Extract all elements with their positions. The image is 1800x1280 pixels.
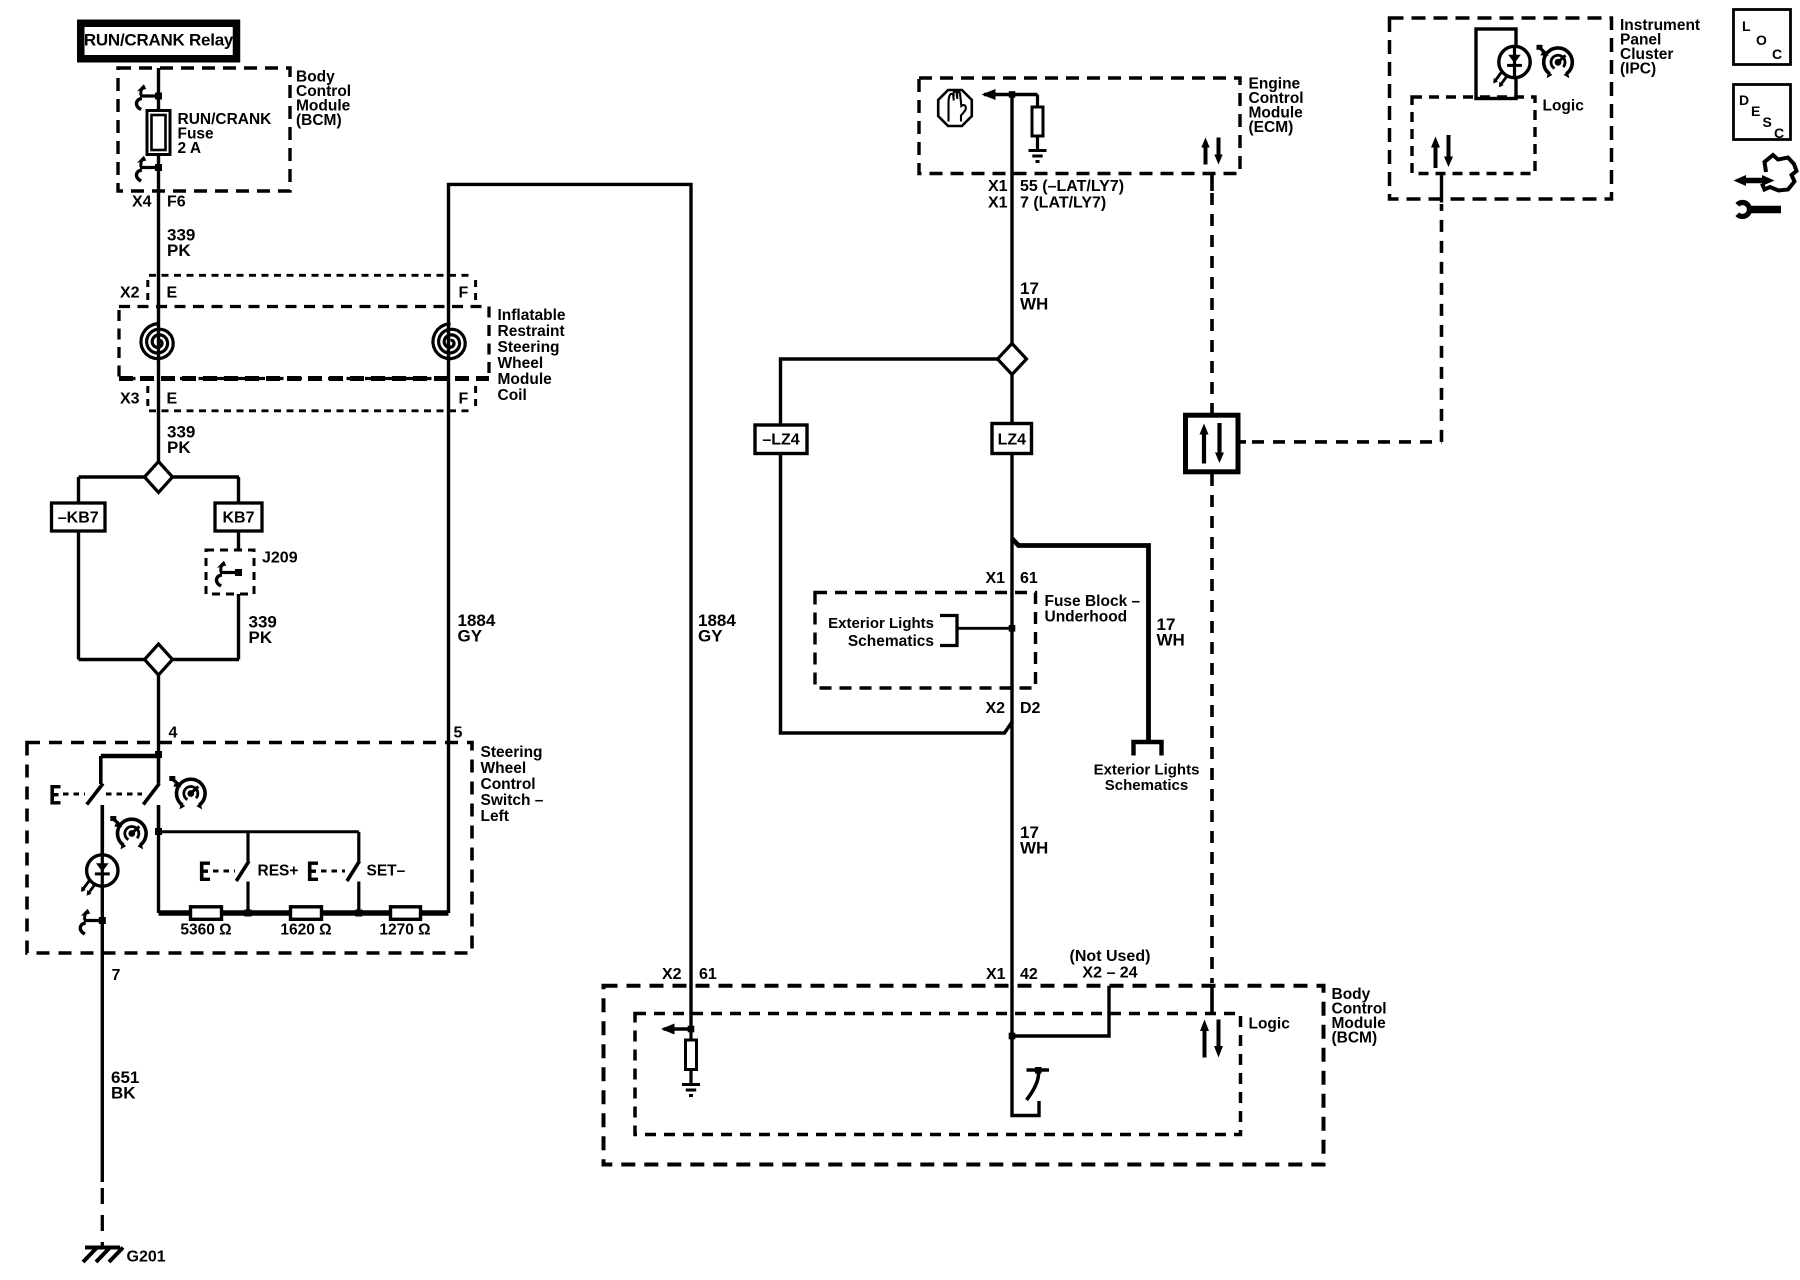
actuator dashed link (on/off) [63,793,142,796]
wire: switch2 to rail [157,832,160,913]
svg-text:J209: J209 [262,550,298,567]
node: X1-42 junction [1009,1033,1016,1040]
wire: left branch to -KB7 [77,477,80,503]
wire: comm dashed to IPC corner [1252,204,1442,442]
option box -LZ4 [755,425,807,454]
wire: pin5 drop inside box [447,743,450,914]
wire: ladder top rail [159,830,359,833]
bracket: exterior lights tap [940,616,957,646]
svg-text:Logic: Logic [1543,98,1585,115]
svg-text:–KB7: –KB7 [58,510,99,527]
svg-text:Module: Module [498,371,553,388]
logic box (IPC) [1412,97,1535,174]
wire: fuse block right branch 17 WH [1012,539,1149,742]
wire: dashed to ground [101,1188,104,1247]
svg-text:X3: X3 [120,391,140,408]
icon: serial data arrows (BCM logic) [1200,1020,1223,1058]
actuator E (RES+) [200,862,210,882]
svg-text:F: F [459,285,469,302]
svg-text:Restraint: Restraint [498,323,565,340]
resistor: ECM pull-up [1036,95,1039,108]
wire: LZ4 trunk down to BCM [1010,375,1013,1037]
wire: tap to trunk [957,627,1012,630]
svg-text:SET–: SET– [367,863,406,880]
wire: comm dashed down to BCM logic [1210,474,1214,983]
module box: Steering Wheel Control Switch - Left [27,743,544,954]
svg-text:E: E [167,391,178,408]
wire: splice S3 to -LZ4 branch [781,359,998,425]
svg-text:X2: X2 [662,966,682,983]
svg-text:O: O [1756,32,1767,48]
svg-text:Switch –: Switch – [481,792,544,809]
wire: splice to switch pin 4 [157,675,160,755]
svg-text:Exterior Lights: Exterior Lights [828,615,934,632]
svg-text:X1: X1 [988,178,1008,195]
svg-text:X4: X4 [132,194,152,211]
wire: pin7 leg 651 BK [101,886,104,1182]
module box: Instrument Panel Cluster (IPC) [1390,17,1701,199]
svg-text:1620 Ω: 1620 Ω [280,922,331,939]
svg-text:(BCM): (BCM) [1332,1030,1378,1047]
wire: ladder bottom rail [159,910,449,916]
svg-text:Steering: Steering [498,339,560,356]
logic box (BCM) [635,1014,1290,1135]
svg-text:BK: BK [111,1084,136,1103]
svg-text:G201: G201 [127,1249,166,1266]
wire: right branch to KB7 [237,477,240,503]
svg-text:X1: X1 [986,966,1006,983]
option box KB7 [215,503,262,531]
svg-text:Logic: Logic [1249,1016,1291,1033]
svg-text:Wheel: Wheel [498,355,544,372]
svg-text:KB7: KB7 [222,510,254,527]
svg-text:4: 4 [169,725,178,742]
wire: ECM output with arrow [984,93,1038,96]
wire: KB7 to J209 [237,531,240,550]
option box LZ4 [992,424,1032,454]
ground G201 [83,1248,166,1266]
switch: on/off contact 2 [157,756,161,784]
svg-text:(Not Used): (Not Used) [1070,948,1151,965]
svg-text:7: 7 [112,967,121,984]
svg-text:Left: Left [481,808,509,825]
icon: stop hand octagon [938,90,972,126]
svg-text:PK: PK [167,241,191,260]
splice pack box: serial data up/down [1186,415,1239,472]
resistor 1270 ohm [379,907,430,939]
wire: ECM pin drop [1010,95,1013,344]
svg-text:42: 42 [1020,966,1038,983]
svg-text:X1: X1 [988,195,1008,212]
wire: feed bar [101,754,159,759]
BCM input arrow + pull resistor [661,1024,697,1085]
icon: diagnostic arrows + wrench [1734,155,1797,217]
resistor 1620 ohm [280,907,331,939]
svg-text:C: C [1774,125,1784,141]
coil spiral right [433,324,465,359]
svg-text:F6: F6 [167,194,186,211]
actuator E (on/off) [51,785,61,805]
svg-text:D2: D2 [1020,700,1041,717]
icon box DESC [1734,85,1791,142]
coil spiral left [141,324,173,359]
svg-text:WH: WH [1157,631,1185,650]
svg-text:Schematics: Schematics [848,633,934,650]
svg-text:GY: GY [698,627,723,646]
svg-text:Coil: Coil [498,387,527,404]
wire: ECM serial data drop (dashed) [1210,174,1214,192]
svg-text:Steering: Steering [481,744,543,761]
svg-text:C: C [1772,46,1782,62]
svg-text:Underhood: Underhood [1045,609,1128,626]
wire: 339 PK branch trunk [157,68,160,462]
connector row X3 E / F [120,386,476,411]
splice diamond S1 [145,462,173,493]
svg-text:Exterior Lights: Exterior Lights [1094,762,1200,779]
svg-text:–LZ4: –LZ4 [762,432,799,449]
fuse RUN/CRANK Fuse 2 A [147,111,272,158]
svg-text:RUN/CRANK Relay: RUN/CRANK Relay [84,31,234,50]
svg-text:55 (–LAT/LY7): 55 (–LAT/LY7) [1020,178,1124,195]
wire: -LZ4 down and around [781,454,1013,734]
relay label box RUN/CRANK Relay [81,23,237,59]
svg-text:X1: X1 [986,570,1006,587]
connector fork: to Exterior Lights Schematics [1134,742,1162,756]
splice diamond S2 [145,644,173,675]
svg-text:5: 5 [454,725,463,742]
terminal inside switch [80,909,106,934]
module box: Body Control Module (BCM) top [118,68,351,191]
svg-text:(IPC): (IPC) [1620,61,1656,78]
svg-text:2 A: 2 A [178,140,202,157]
terminal: fuse downstream [136,156,162,181]
wire: X2-24 stub [1012,986,1109,1036]
node: ECM junction [1009,91,1016,98]
svg-text:WH: WH [1020,295,1048,314]
svg-text:S: S [1763,114,1772,130]
svg-text:PK: PK [167,438,191,457]
option box -KB7 [52,503,106,531]
wire: J209 down and -KB7 down [79,531,239,660]
module box: Inflatable Restraint Steering Wheel Module Coil [119,307,566,405]
node: rail junction b [355,910,362,917]
icon box LOC [1734,10,1791,65]
node: pin4 junction [155,751,162,758]
wire: splice S1 horizontal [79,475,240,478]
inline connector J209 [206,550,298,595]
svg-text:Wheel: Wheel [481,760,527,777]
svg-text:5360 Ω: 5360 Ω [180,922,231,939]
ground (ECM internal) [1029,151,1047,162]
indicator frame [1476,29,1516,99]
svg-text:Inflatable: Inflatable [498,307,566,324]
module box: Fuse Block - Underhood / Exterior Lights tap [815,593,1140,689]
svg-text:F: F [459,391,469,408]
wire: comm stub right of box [1238,440,1246,444]
svg-text:E: E [1751,103,1760,119]
svg-text:GY: GY [458,627,483,646]
svg-text:L: L [1742,18,1751,34]
icon: cruise gauge lower [110,816,146,849]
svg-text:RES+: RES+ [258,863,299,880]
actuator E (SET-) [308,862,318,882]
svg-text:E: E [167,285,178,302]
node: ladder top-left junction [155,828,162,835]
svg-text:Control: Control [481,776,536,793]
module box: Engine Control Module (ECM) [919,76,1304,174]
svg-text:Schematics: Schematics [1105,777,1188,794]
switch SET- [357,832,360,861]
LED indicator [81,855,118,896]
switch: BCM internal to ground [1012,1036,1049,1116]
icon: serial data arrows (ECM) [1201,138,1222,165]
switch RES+ [246,832,249,861]
wire: coil F down to switch pin5 [447,275,450,743]
svg-text:(ECM): (ECM) [1249,119,1294,136]
svg-text:D: D [1739,92,1749,108]
terminal: fuse upstream [136,84,162,109]
svg-text:X2: X2 [120,285,140,302]
LED indicator (IPC) [1493,46,1530,87]
ground (BCM internal) [682,1085,700,1096]
svg-text:61: 61 [1020,570,1038,587]
svg-text:X2: X2 [986,700,1006,717]
svg-text:WH: WH [1020,839,1048,858]
connector row X2 E / F [120,275,476,303]
node: rail junction a [245,910,252,917]
svg-text:Fuse Block –: Fuse Block – [1045,593,1141,610]
module box: Body Control Module (BCM) bottom [604,986,1387,1165]
wire: splice S2 horizontal [79,658,240,661]
svg-text:LZ4: LZ4 [998,432,1027,449]
svg-text:1270 Ω: 1270 Ω [379,922,430,939]
svg-text:(BCM): (BCM) [296,112,342,129]
svg-text:PK: PK [249,628,273,647]
splice diamond S3 [998,344,1027,375]
switch: on/off contact 1 [99,756,103,784]
icon: cruise gauge (IPC) [1537,45,1573,78]
resistor 5360 ohm [180,907,231,939]
svg-text:7 (LAT/LY7): 7 (LAT/LY7) [1020,195,1106,212]
wire: IPC comm drop [1440,174,1443,203]
svg-text:X2 – 24: X2 – 24 [1082,965,1137,982]
wire: coil F up and over (1884 GY riser) [449,184,692,1029]
icon: cruise gauge upper [169,776,205,809]
node: tap junction [1009,625,1016,632]
svg-text:61: 61 [699,966,717,983]
icon: serial data arrows (IPC) [1431,135,1453,168]
